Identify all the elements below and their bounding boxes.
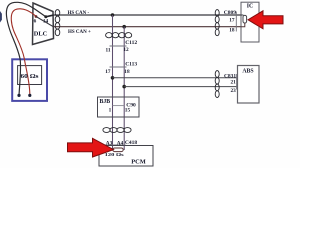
terminal dot right <box>28 94 31 97</box>
junction dot ABS branch bottom <box>122 85 126 89</box>
twisted pair symbol right top vertical <box>215 10 219 36</box>
svg-text:14: 14 <box>43 19 49 25</box>
svg-text:DLC: DLC <box>34 31 48 38</box>
svg-text:1: 1 <box>109 107 112 113</box>
wire pin14 to edge <box>46 15 54 17</box>
wire stub bottom into IC <box>241 23 245 27</box>
svg-text:23: 23 <box>231 88 237 94</box>
svg-text:HS CAN -: HS CAN - <box>68 11 90 16</box>
svg-text:C113: C113 <box>125 61 137 67</box>
HS CAN + bus wire <box>54 26 245 28</box>
wire stub top into IC <box>241 14 243 16</box>
C809 tick <box>235 12 237 32</box>
edge mark <box>0 11 2 23</box>
svg-text:C809: C809 <box>224 10 236 16</box>
svg-text:120 Ωs: 120 Ωs <box>105 152 124 157</box>
junction dot top bus <box>111 13 115 17</box>
twisted pair symbol right mid vertical <box>215 71 219 98</box>
svg-text:15: 15 <box>125 107 131 113</box>
wire to ABS pin 21 <box>113 77 239 79</box>
svg-text:C112: C112 <box>125 40 137 46</box>
wire to ABS pin 23 <box>124 86 238 88</box>
IC internal resistor <box>243 15 247 23</box>
C90 tick <box>113 105 125 107</box>
svg-text:HS CAN +: HS CAN + <box>68 30 91 35</box>
svg-text:60 Ωs: 60 Ωs <box>21 74 40 80</box>
svg-text:12: 12 <box>123 47 129 53</box>
pin 14 dot <box>44 15 47 18</box>
C831 tick <box>236 74 238 90</box>
wire black loop DLC to 60 ohm <box>6 2 45 95</box>
twisted pair symbol mid top horizontal <box>106 33 132 38</box>
pin 6 dot <box>35 15 38 18</box>
svg-text:ABS: ABS <box>242 69 253 75</box>
svg-text:18: 18 <box>124 69 130 75</box>
60 ohm resistor box outer <box>12 59 47 101</box>
twisted pair symbol bottom horizontal <box>103 128 131 133</box>
red arrow pointing right at PCM resistor <box>68 138 114 157</box>
vertical wire right <box>123 27 125 150</box>
C113 tick <box>110 66 127 68</box>
vertical wire left <box>112 15 114 150</box>
svg-text:BJB: BJB <box>100 99 111 105</box>
wire pin6 to edge <box>36 17 54 27</box>
svg-text:6: 6 <box>34 19 37 25</box>
C112 tick <box>110 45 127 47</box>
twisted pair symbol near DLC <box>55 10 60 36</box>
svg-text:17: 17 <box>229 18 235 24</box>
DLC connector <box>33 3 54 45</box>
svg-text:21: 21 <box>231 79 237 85</box>
terminal dot left <box>17 94 20 97</box>
PCM box <box>99 146 153 167</box>
60 ohm resistor box inner <box>18 66 42 85</box>
svg-text:PCM: PCM <box>131 159 146 166</box>
junction dot bottom bus <box>122 25 126 29</box>
wire red loop DLC to 60 ohm <box>11 9 36 96</box>
svg-text:11: 11 <box>105 47 110 53</box>
IC box <box>241 2 259 42</box>
wire stubs into PCM <box>113 146 125 151</box>
svg-text:IC: IC <box>247 4 253 10</box>
svg-text:17: 17 <box>105 69 111 75</box>
120 ohm resistor <box>113 148 123 152</box>
junction dot ABS branch top <box>111 76 115 80</box>
svg-text:18: 18 <box>229 28 235 34</box>
BJB box <box>98 97 140 117</box>
HS CAN - bus wire <box>54 14 244 16</box>
C418 tick <box>102 144 126 146</box>
svg-text:C418: C418 <box>125 140 137 146</box>
ABS box <box>238 66 260 104</box>
red arrow pointing left at IC resistor <box>248 11 283 29</box>
